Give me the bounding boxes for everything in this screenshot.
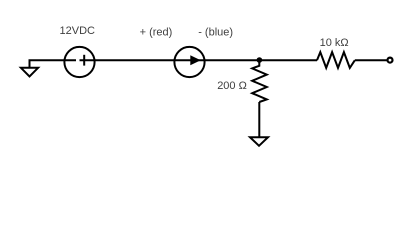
wire from voltage source through current source to junction and 10k resistor xyxy=(80,59,318,61)
resistor R1 200 ohm (vertical zigzag) xyxy=(252,60,267,102)
ground (left) xyxy=(21,68,38,77)
wire from ground to voltage source minus terminal xyxy=(30,60,77,68)
current direction arrowhead xyxy=(190,55,200,65)
svg-text:200 Ω: 200 Ω xyxy=(217,80,247,92)
open terminal xyxy=(388,58,393,63)
node junction dot xyxy=(257,57,263,63)
wire from resistor R1 to ground xyxy=(258,102,260,137)
voltage source plus sign xyxy=(83,55,85,66)
wire from resistor R2 to output terminal xyxy=(355,59,387,61)
resistor R2 10 kohm (horizontal zigzag) xyxy=(317,52,355,68)
svg-text:- (blue): - (blue) xyxy=(198,27,233,39)
voltage source V1 circle xyxy=(64,47,94,77)
ground (bottom) xyxy=(250,137,268,146)
current source / ammeter circle xyxy=(174,47,204,77)
svg-text:+ (red): + (red) xyxy=(140,27,173,39)
svg-text:10 kΩ: 10 kΩ xyxy=(320,37,349,49)
svg-text:12VDC: 12VDC xyxy=(60,25,96,37)
